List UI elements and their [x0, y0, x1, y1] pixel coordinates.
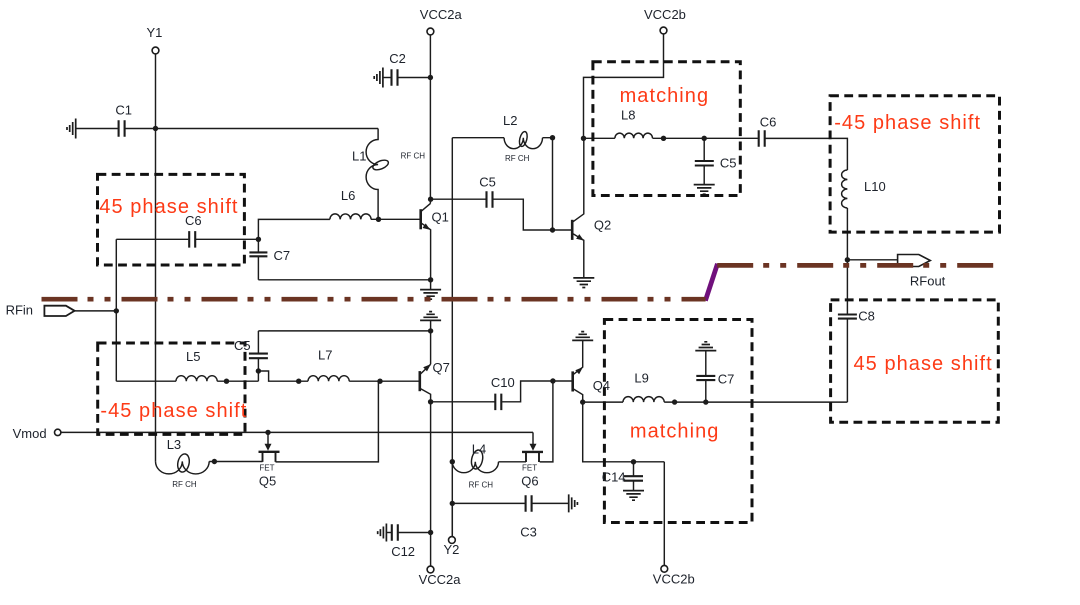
svg-text:RFin: RFin	[6, 303, 33, 318]
svg-text:45 phase shift: 45 phase shift	[854, 353, 993, 375]
svg-text:C10: C10	[491, 375, 515, 390]
terminal VCC2a bottom	[427, 566, 434, 573]
terminal Vmod	[55, 429, 61, 435]
capacitor C5 (lower) stems	[257, 331, 259, 381]
wire C12 to VCC2a line	[399, 532, 431, 534]
capacitor C6 (phase shift box)	[189, 231, 195, 248]
capacitor C5 (lower) plates	[249, 354, 268, 359]
svg-text:VCC2a: VCC2a	[420, 7, 463, 22]
svg-text:L7: L7	[318, 348, 332, 363]
svg-text:C5: C5	[720, 155, 737, 170]
svg-text:Q6: Q6	[521, 474, 538, 489]
wire C10 to Q4 base	[502, 381, 573, 402]
node C2/VCC2a	[428, 75, 433, 80]
node C12 / VCC2a line	[428, 530, 433, 535]
svg-text:C8: C8	[858, 309, 875, 324]
box -45 phase shift (right top)	[830, 96, 999, 232]
capacitor C7 (left)	[249, 252, 267, 256]
inductor L8	[615, 133, 653, 138]
svg-text:Vmod: Vmod	[13, 426, 47, 441]
svg-text:C2: C2	[389, 51, 406, 66]
symbol RFin flag	[44, 306, 74, 316]
node Q7 collector / C10	[428, 399, 433, 404]
ground G1 (left-facing, at C1)	[67, 119, 76, 139]
svg-text:matching: matching	[630, 420, 720, 442]
svg-text:-45 phase shift: -45 phase shift	[834, 112, 981, 134]
svg-text:L9: L9	[634, 370, 648, 385]
node L3 pin	[212, 459, 217, 464]
terminal VCC2a top	[427, 28, 434, 35]
svg-text:RF CH: RF CH	[401, 151, 426, 160]
wire VCC2b bottom drop	[663, 462, 665, 566]
svg-text:C7: C7	[718, 371, 735, 386]
svg-text:C12: C12	[391, 544, 415, 559]
wire L7 to Q7 base	[349, 380, 420, 382]
terminal VCC2b top	[660, 27, 667, 34]
box matching (bottom)	[604, 320, 752, 523]
svg-text:C5: C5	[234, 338, 251, 353]
terminal Y2	[449, 537, 456, 544]
svg-text:Y1: Y1	[147, 25, 163, 40]
node C7 matching	[703, 399, 708, 404]
terminal VCC2b bottom	[661, 565, 668, 572]
wire FET Q5 right to L7 node	[276, 381, 379, 462]
svg-text:45 phase shift: 45 phase shift	[99, 196, 238, 218]
wire L8 left lead	[584, 137, 615, 139]
wire L8 to C6	[653, 137, 758, 139]
capacitor C14 stem	[633, 462, 635, 491]
svg-text:Q7: Q7	[433, 360, 450, 375]
inductor L3 (RF choke)	[156, 461, 210, 474]
inductor L3 loop	[176, 453, 191, 473]
wire C3 lead	[452, 502, 525, 504]
ground G7 (inverted, above Q4)	[572, 332, 593, 341]
wire axis purple segment	[705, 264, 717, 301]
FET Q5 bar	[259, 451, 280, 453]
wire VCC2a down to Q1 collector	[429, 35, 431, 203]
node L1/L6/Q1 base	[376, 217, 381, 222]
wire L9 left lead	[583, 401, 623, 403]
wire jog C5b to L7	[258, 371, 308, 381]
node L7 right / Q5	[377, 379, 382, 384]
transistor Q7 emitter arrowhead	[423, 364, 431, 371]
svg-text:Q4: Q4	[593, 378, 610, 393]
wire L6 left corner from C6 node	[258, 219, 330, 239]
node L8 pin	[661, 136, 666, 141]
svg-text:RF CH: RF CH	[505, 154, 530, 163]
node Q1 collector	[428, 197, 433, 202]
wire C7 bottom to Q1 emitter node	[258, 279, 430, 281]
wire L3 to FET Q5	[209, 461, 262, 463]
svg-text:RFout: RFout	[910, 274, 946, 289]
capacitor C7 (matching lower) stem	[705, 351, 707, 403]
svg-text:L10: L10	[864, 179, 886, 194]
svg-text:C7: C7	[274, 248, 291, 263]
wire L5 lead	[116, 380, 176, 382]
wire C6a left lead	[116, 238, 188, 240]
svg-text:RF CH: RF CH	[469, 480, 494, 489]
svg-text:L8: L8	[621, 108, 635, 123]
capacitor C5 (upper)	[487, 191, 493, 208]
node C5b bottom	[256, 368, 261, 373]
wire RFin/C6/L5 vertical	[115, 239, 117, 381]
transistor Q1 collector	[421, 203, 431, 211]
capacitor C5 (matching) stem	[703, 138, 705, 184]
node L4 left	[450, 459, 455, 464]
svg-text:L1: L1	[352, 148, 366, 163]
inductor L9	[623, 397, 664, 403]
inductor L4 (RF choke)	[452, 462, 498, 473]
svg-text:C6: C6	[185, 213, 202, 228]
inductor L7	[308, 376, 349, 381]
capacitor C10	[495, 394, 501, 411]
node L2 right	[550, 135, 555, 140]
wire C10 left lead	[431, 401, 495, 403]
ground G5 (below C5 matching)	[694, 185, 715, 195]
wire C3 to right ground	[532, 502, 568, 504]
symbol RFout arrow	[898, 255, 931, 267]
node L5 pin	[224, 379, 229, 384]
svg-text:C3: C3	[520, 524, 537, 539]
node Q2 base	[550, 227, 555, 232]
capacitor C14 plates	[624, 476, 643, 481]
node L10 / RFout / C8	[845, 257, 850, 262]
wire inverted ground to Q7 emitter	[430, 320, 432, 364]
wire L2 right to junction	[543, 138, 553, 230]
wire RFout lead	[847, 259, 897, 261]
capacitor C12	[392, 524, 398, 541]
capacitor C8 stems	[846, 260, 848, 402]
svg-text:C6: C6	[760, 114, 777, 129]
wire C1 ground to plates	[76, 128, 118, 130]
node Q4 base / Q6	[550, 378, 555, 383]
box -45 phase shift (bottom left)	[98, 343, 245, 434]
transistor Q7 emitter (up)	[420, 364, 431, 374]
inductor L1 (RF choke vertical)	[366, 129, 378, 220]
transistor Q7 collector (down)	[420, 388, 431, 402]
capacitor C2	[392, 69, 398, 86]
wire VCC2b feed to L8 node	[584, 34, 664, 138]
svg-text:L3: L3	[167, 437, 181, 452]
svg-text:C14: C14	[602, 469, 626, 484]
wire L10 to RFout node	[846, 208, 848, 260]
wire L2 lead	[452, 137, 504, 139]
wire C2 to VCC2a line	[398, 77, 430, 79]
wire Vmod to Q6 gate	[61, 432, 533, 445]
wire Y2 drop	[451, 503, 453, 536]
ground G3 (below Q2)	[573, 278, 594, 288]
FET Q6 legs	[526, 452, 539, 462]
wire axis dash-dot line left (brown)	[42, 297, 706, 302]
transistor Q1 bar	[419, 209, 422, 229]
transistor Q1 emitter	[421, 223, 431, 280]
node L9 right pin	[672, 399, 677, 404]
wire Y1 vertical line	[155, 54, 157, 461]
svg-text:L5: L5	[186, 349, 200, 364]
ground G2 (left-facing, at C2)	[374, 68, 383, 88]
inductor L2 loop	[518, 131, 528, 147]
inductor L5	[176, 376, 217, 382]
inductor L1 loop	[371, 158, 389, 172]
wire C6 to L10	[766, 138, 848, 170]
transistor Q4 emitter arrowhead	[575, 367, 583, 374]
FET Q6 bar	[522, 451, 543, 453]
FET Q5 gate arrowhead	[265, 444, 272, 451]
node Vmod / Q5 gate	[265, 430, 270, 435]
wire C6a to C7 node	[196, 238, 258, 240]
wire L9 to C8 riser	[664, 401, 847, 403]
node RFin	[114, 308, 119, 313]
capacitor C7 stems	[257, 239, 259, 279]
FET Q5 legs	[263, 452, 276, 462]
transistor Q7 bar	[418, 371, 421, 391]
svg-text:matching: matching	[620, 85, 710, 107]
svg-text:L2: L2	[503, 113, 517, 128]
svg-text:Q2: Q2	[594, 218, 611, 233]
node VCC2b/L8	[581, 136, 586, 141]
inductor L6	[330, 214, 371, 220]
svg-text:C5: C5	[479, 175, 496, 190]
svg-text:Q5: Q5	[259, 474, 276, 489]
wire RFin	[75, 310, 117, 312]
ground G10 (right-facing, at C3)	[569, 494, 578, 512]
terminal Y1	[152, 47, 159, 54]
transistor Q2 collector	[572, 138, 584, 222]
wire L2 left drop line	[451, 138, 453, 536]
transistor Q2 bar	[571, 220, 574, 240]
node Q1 emitter / C7	[428, 277, 433, 282]
svg-text:FET: FET	[259, 464, 274, 473]
svg-text:Q1: Q1	[432, 210, 449, 225]
node Q4 collector / L9	[580, 399, 585, 404]
transistor Q4 bar	[571, 371, 574, 391]
wire L4 to FET Q6	[499, 461, 527, 463]
ground G9 (inverted, above C7)	[695, 342, 716, 351]
svg-text:L6: L6	[341, 188, 355, 203]
ground G6 (inverted, above Q7)	[420, 312, 441, 321]
svg-text:C1: C1	[115, 103, 132, 118]
wire C12 ground to plates	[386, 532, 391, 534]
box matching (top)	[593, 62, 740, 196]
svg-text:-45 phase shift: -45 phase shift	[100, 400, 247, 422]
inductor L10 (vertical)	[842, 170, 848, 208]
node C5b / ground	[428, 328, 433, 333]
transistor Q2 emitter	[572, 233, 584, 277]
wire C5a from Q1 collector	[431, 198, 486, 200]
capacitor C3	[526, 495, 532, 512]
wire C1 to Y1 node to L1 top	[126, 128, 379, 130]
capacitor C6 (right)	[759, 130, 765, 147]
node L7 left pin	[296, 379, 301, 384]
svg-text:VCC2b: VCC2b	[644, 7, 686, 22]
inductor L2 (RF choke)	[504, 138, 542, 149]
capacitor C5 (matching) plates	[695, 161, 714, 166]
capacitor C7 (matching lower) plates	[696, 376, 715, 380]
wire Q7 collector down to VCC2a bottom	[430, 402, 432, 566]
box 45 phase shift (top left)	[98, 174, 245, 265]
transistor Q4 collector (down)	[573, 389, 583, 403]
wire L5 right to C5b	[217, 380, 258, 382]
ground G8 (below C14)	[623, 491, 644, 501]
inductor L4 loop	[470, 449, 485, 470]
svg-text:L4: L4	[472, 442, 486, 457]
node C1/Y1	[153, 126, 158, 131]
FET Q6 gate arrowhead	[530, 444, 537, 451]
transistor Q1 emitter arrowhead	[423, 223, 431, 230]
wire Q4 collector down to C14	[583, 402, 665, 462]
svg-text:VCC2b: VCC2b	[653, 571, 695, 586]
svg-text:FET: FET	[522, 464, 537, 473]
transistor Q4 emitter (up)	[573, 341, 583, 375]
svg-text:VCC2a: VCC2a	[419, 572, 462, 587]
wire C2 ground to plates	[383, 77, 391, 79]
ground G11 (left-facing, at C12)	[378, 524, 387, 542]
capacitor C1	[119, 120, 125, 137]
box 45 phase shift (right bottom)	[831, 300, 999, 422]
wire C5a to Q2 base	[493, 199, 572, 230]
node C14	[631, 459, 636, 464]
node C5 matching	[702, 136, 707, 141]
svg-text:Y2: Y2	[444, 542, 460, 557]
transistor Q2 emitter arrowhead	[576, 234, 584, 241]
wire L6 to Q1 base	[371, 218, 421, 220]
node C3 / Y2 line	[450, 501, 455, 506]
svg-text:RF CH: RF CH	[172, 480, 197, 489]
wire axis dash-dot line right (brown)	[717, 263, 993, 268]
node C6/C7	[256, 237, 261, 242]
wire Q4-base node down to Q6	[540, 381, 553, 462]
capacitor C8 plates	[838, 315, 857, 319]
ground G4 (below Q1 emitter)	[430, 280, 432, 290]
wire C5b top lead	[258, 330, 430, 332]
